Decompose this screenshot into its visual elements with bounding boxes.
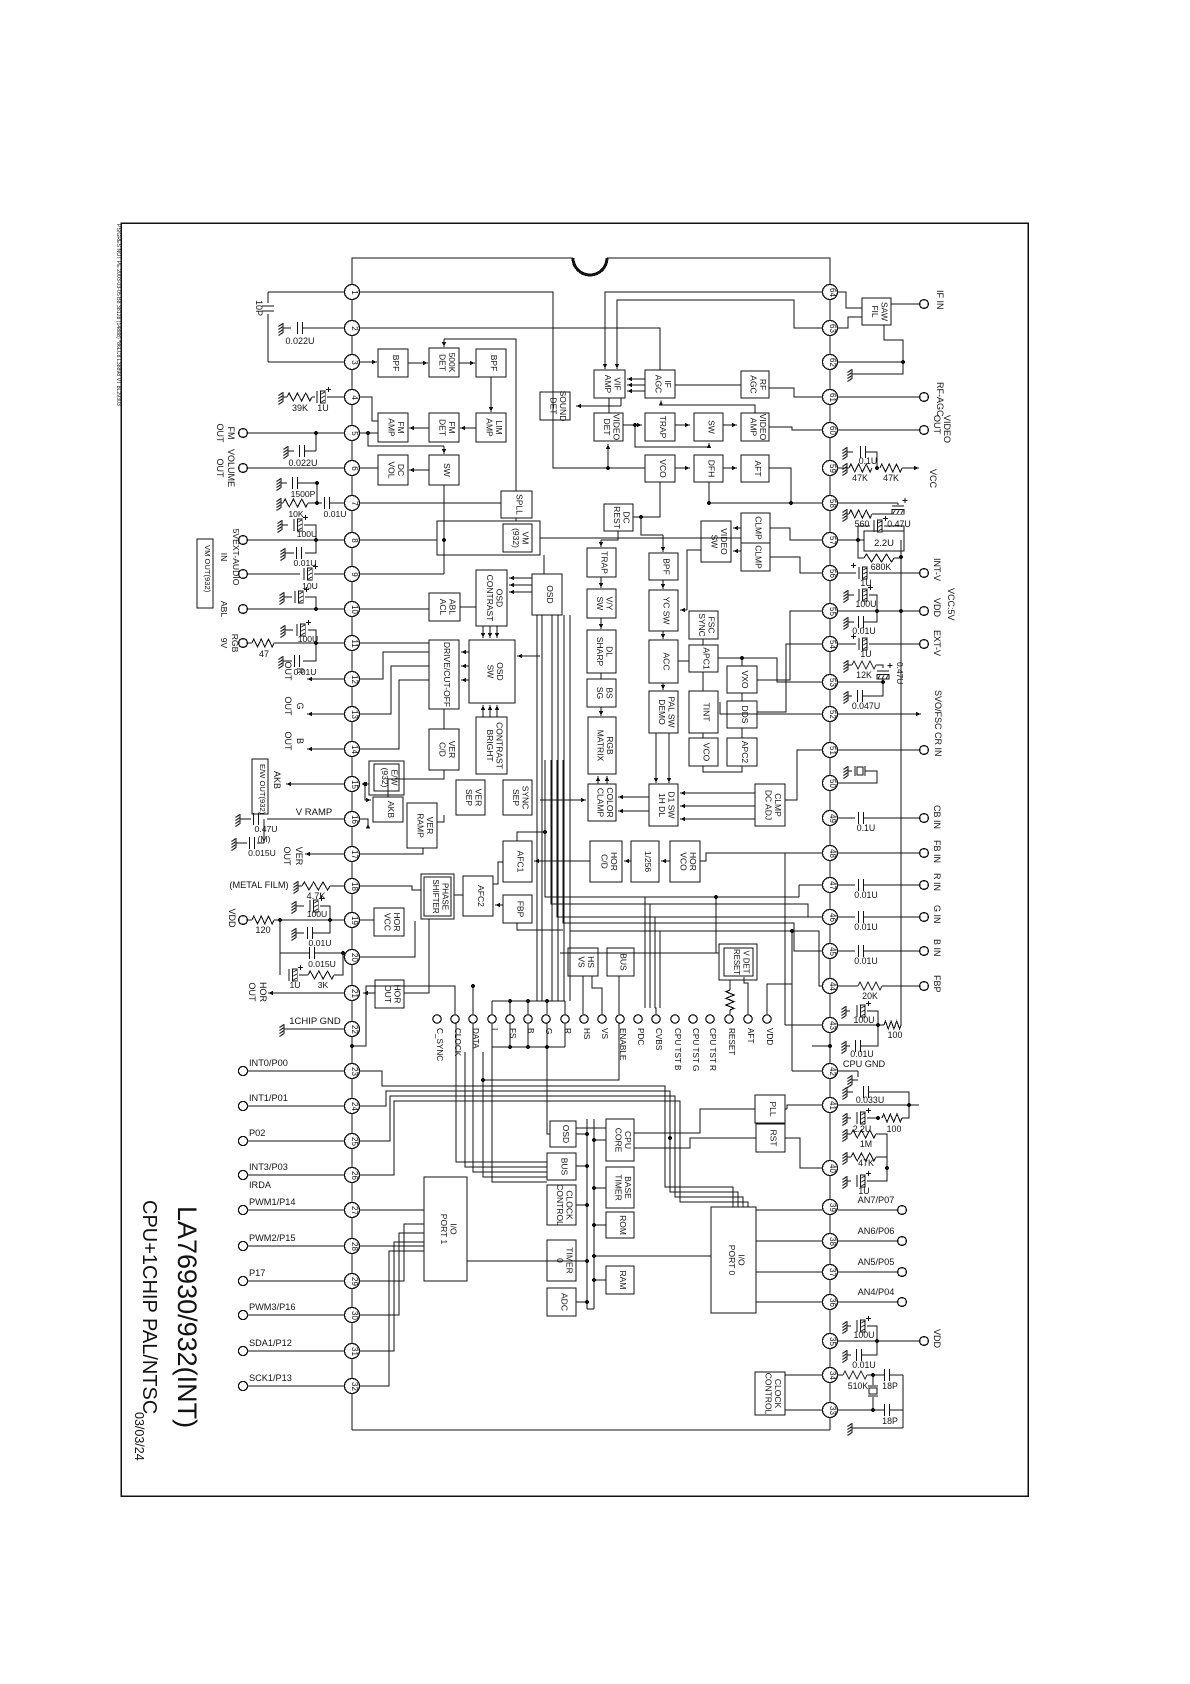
block BS SG bbox=[587, 679, 616, 707]
block BUS (cpu) bbox=[547, 1153, 576, 1180]
wire pin60 to VIDEO OUT connector bbox=[838, 429, 919, 431]
block CPU CORE bbox=[606, 1119, 634, 1161]
svg-text:PAL SW: PAL SW bbox=[666, 696, 676, 727]
block E/W(932) bbox=[374, 764, 399, 791]
connector P02 pin25 bbox=[238, 1136, 247, 1145]
capacitor 1U + resistor 3K at pin20 bbox=[279, 953, 281, 975]
svg-text:1U: 1U bbox=[860, 578, 871, 588]
svg-text:SW: SW bbox=[485, 665, 495, 679]
svg-text:VIDEO: VIDEO bbox=[719, 528, 729, 555]
wire pin38 to AN6/P06 bbox=[838, 1240, 897, 1242]
pin 41 bbox=[823, 1098, 838, 1113]
svg-text:VDD: VDD bbox=[227, 908, 237, 928]
svg-text:11: 11 bbox=[350, 639, 359, 648]
svg-text:25: 25 bbox=[350, 1137, 359, 1146]
capacitor 10P bbox=[262, 305, 274, 307]
junction below pin22 bbox=[350, 1044, 354, 1048]
svg-text:VIF: VIF bbox=[612, 377, 622, 390]
block AFC2 bbox=[463, 876, 493, 916]
svg-text:P17: P17 bbox=[249, 1268, 265, 1278]
wire TINT to VCO bbox=[702, 733, 704, 738]
svg-text:10K: 10K bbox=[288, 509, 304, 519]
pin 58 bbox=[823, 496, 838, 511]
connector INT1/P01 pin24 bbox=[238, 1101, 247, 1110]
block VIDEO DET bbox=[594, 413, 623, 441]
block AKB bbox=[373, 797, 403, 822]
capacitor 0.1U at pin59 bbox=[847, 451, 853, 453]
wire pin35 to VDD connector bbox=[838, 1340, 919, 1342]
wire AFT to pin58 node bbox=[769, 468, 791, 503]
svg-text:0.033U: 0.033U bbox=[856, 1095, 884, 1105]
wire OSD to OSD CONTRAST (3 arrows) bbox=[509, 577, 532, 579]
svg-text:FB IN: FB IN bbox=[932, 840, 942, 863]
connector P17 pin29 bbox=[238, 1276, 247, 1285]
svg-text:34: 34 bbox=[828, 1371, 837, 1380]
svg-text:G: G bbox=[295, 702, 305, 709]
svg-text:31: 31 bbox=[350, 1347, 359, 1356]
block HOR VCC bbox=[374, 908, 404, 936]
svg-text:DET: DET bbox=[437, 354, 447, 371]
svg-text:CONTRAST: CONTRAST bbox=[485, 575, 495, 622]
svg-text:100U: 100U bbox=[298, 634, 319, 644]
svg-text:DC: DC bbox=[396, 464, 406, 476]
saw filter SAW FIL bbox=[862, 298, 891, 325]
pin 45 bbox=[823, 944, 838, 959]
svg-text:60: 60 bbox=[828, 426, 837, 435]
svg-text:PORT 1: PORT 1 bbox=[439, 1214, 449, 1245]
connector RF-AGC bbox=[920, 393, 929, 402]
resistor 47 at pin11 bbox=[248, 642, 252, 644]
pins23-26 bus to I/O PORT 0 bbox=[360, 1071, 733, 1207]
capacitor 0.01U at pin11 bbox=[303, 643, 316, 661]
pin 25 bbox=[345, 1134, 360, 1149]
svg-text:1U: 1U bbox=[290, 980, 301, 990]
svg-text:LA76930/932(INT): LA76930/932(INT) bbox=[172, 1206, 202, 1428]
svg-text:OUT: OUT bbox=[383, 985, 393, 1003]
svg-text:0.01U: 0.01U bbox=[324, 509, 347, 519]
svg-text:VCO: VCO bbox=[678, 852, 688, 871]
wire FSC SYNC down to APC1 bbox=[702, 639, 704, 645]
svg-text:SEP: SEP bbox=[464, 789, 474, 806]
svg-text:EXT-V: EXT-V bbox=[932, 630, 942, 656]
svg-text:VS: VS bbox=[576, 956, 586, 968]
wire E/W to AKB link bbox=[387, 795, 389, 797]
svg-text:63: 63 bbox=[828, 324, 837, 333]
svg-text:35: 35 bbox=[828, 1337, 837, 1346]
svg-text:18: 18 bbox=[350, 882, 359, 891]
block DC REST bbox=[604, 504, 633, 531]
svg-text:46: 46 bbox=[828, 913, 837, 922]
svg-text:BPF: BPF bbox=[391, 355, 401, 372]
svg-text:LIM: LIM bbox=[494, 420, 504, 434]
svg-text:3K: 3K bbox=[318, 980, 329, 990]
resistor 100 at pin41 bbox=[882, 1114, 902, 1122]
connector FM OUT bbox=[239, 429, 248, 438]
bus line pin46 direct bbox=[557, 760, 822, 917]
svg-text:VIDEO: VIDEO bbox=[611, 414, 621, 441]
svg-text:DEMO: DEMO bbox=[657, 699, 667, 725]
wire DL SHARP to BS SG bbox=[600, 673, 602, 679]
wire APC1 to TINT bbox=[702, 672, 704, 691]
svg-text:DL: DL bbox=[604, 646, 614, 657]
resistor 10K at pin7 bbox=[281, 502, 283, 504]
block LIM AMP bbox=[476, 413, 506, 442]
wire 1/256 to HOR C/D bbox=[624, 860, 631, 862]
svg-text:SYNC: SYNC bbox=[697, 613, 707, 637]
block IF AGC bbox=[645, 370, 675, 398]
wire DFH to AFT bbox=[723, 467, 737, 469]
wire HS circle to HS VS block bbox=[582, 976, 584, 1014]
pin 50 bbox=[823, 776, 838, 791]
pin 54 bbox=[823, 637, 838, 652]
VDD rail right side bbox=[900, 540, 902, 1025]
wire OSD CONTRAST to OSD SW (3 arrows down) bbox=[482, 626, 484, 638]
wire I/O PORT 0 to pin37 bbox=[756, 1271, 822, 1273]
wire pin18 internal to PHASE SHIFTER bbox=[360, 886, 421, 890]
svg-text:VER: VER bbox=[425, 817, 435, 834]
svg-text:VDD: VDD bbox=[932, 598, 942, 618]
svg-text:AKB: AKB bbox=[272, 771, 282, 789]
block FM DET bbox=[429, 413, 459, 442]
wire RF AGC to pin61 / RF-AGC out bbox=[769, 388, 822, 397]
svg-text:RESET: RESET bbox=[727, 1028, 736, 1055]
svg-text:VS: VS bbox=[600, 1028, 609, 1039]
svg-text:BS: BS bbox=[604, 687, 614, 699]
wire TRAP to SW bbox=[675, 424, 690, 426]
block D1 SW 1H DL bbox=[649, 784, 678, 826]
wire pin12 R OUT route bbox=[360, 652, 429, 679]
block FM AMP bbox=[378, 413, 408, 442]
capacitor 0.01U at pin7 bbox=[316, 483, 318, 503]
arrow R OUT bbox=[307, 678, 344, 680]
wire pin55 to VXO supply bbox=[757, 611, 822, 680]
arrow AKB out at pin15 bbox=[286, 783, 344, 785]
svg-text:OSD: OSD bbox=[561, 1125, 571, 1143]
block VIDEO SW bbox=[701, 521, 731, 562]
connector PWM3/P16 pin30 bbox=[238, 1310, 247, 1319]
svg-text:C/D: C/D bbox=[599, 854, 609, 869]
port circle VS bbox=[598, 1015, 606, 1023]
svg-text:VER: VER bbox=[294, 847, 304, 866]
arrow SVO/FSC out pin52 bbox=[838, 713, 912, 715]
bus verticals to CPU BUS block bbox=[456, 1023, 547, 1162]
capacitor 1U series at pin56 bbox=[838, 572, 856, 574]
wire V DET RESET left rail bbox=[560, 952, 719, 954]
port circle AFT bbox=[744, 1015, 752, 1023]
wire G line to OSD(cpu) bbox=[547, 1047, 550, 1134]
ground at pin22 bbox=[283, 1024, 285, 1034]
capacitor 0.01U at pin55 bbox=[848, 621, 854, 623]
svg-text:B: B bbox=[526, 1028, 535, 1034]
capacitor 0.01U at pin47 bbox=[838, 884, 855, 886]
svg-text:54: 54 bbox=[828, 640, 837, 649]
block DL SHARP bbox=[587, 630, 616, 673]
wire CONTRAST BRIGHT to OSD SW (3 arrows up) bbox=[482, 705, 484, 717]
wire pin39 to AN7/P07 bbox=[838, 1209, 897, 1211]
svg-text:100: 100 bbox=[888, 1030, 903, 1040]
svg-text:AMP: AMP bbox=[386, 418, 396, 437]
wire pin52 to FSC out route bbox=[720, 702, 822, 714]
wire SPLL bottom into VM bbox=[515, 518, 517, 521]
wire HOR VCO to 1/256 bbox=[661, 860, 670, 862]
pin 24 bbox=[345, 1099, 360, 1114]
svg-text:61: 61 bbox=[828, 393, 837, 402]
wire pin63 to VIF AMP top bbox=[617, 300, 822, 360]
wire BPF to 500K DET bbox=[408, 362, 428, 364]
page frame bbox=[121, 223, 1028, 1496]
svg-text:24: 24 bbox=[350, 1102, 359, 1111]
svg-text:HOR: HOR bbox=[392, 913, 402, 932]
svg-text:YC SW: YC SW bbox=[662, 597, 672, 625]
pin 1 bbox=[345, 285, 360, 300]
block ROM bbox=[606, 1212, 634, 1238]
svg-text:42: 42 bbox=[828, 1067, 837, 1076]
resistors 47K 47K at pin59 VCC bbox=[847, 467, 849, 469]
svg-text:1: 1 bbox=[350, 290, 359, 295]
wire pin51 to CR IN connector bbox=[838, 749, 919, 751]
block SW (video) bbox=[694, 413, 723, 441]
capacitor 0.015U at pin20 bbox=[309, 947, 311, 959]
svg-text:BASE: BASE bbox=[623, 1176, 633, 1199]
label box VM OUT(932) bbox=[197, 539, 213, 608]
svg-text:3: 3 bbox=[350, 360, 359, 365]
wire V/Y SW to DL SHARP bbox=[600, 618, 602, 629]
wire pin29 to I/O PORT 1 bbox=[360, 1224, 424, 1281]
connector INT0/P00 pin23 bbox=[238, 1066, 247, 1075]
svg-text:REST: REST bbox=[612, 506, 622, 529]
wire YC SW to ACC bbox=[662, 631, 664, 639]
svg-text:BRIGHT: BRIGHT bbox=[485, 729, 495, 761]
svg-text:0.47U: 0.47U bbox=[887, 519, 910, 529]
block HOR OUT bbox=[375, 980, 404, 1008]
pin 32 bbox=[345, 1379, 360, 1394]
svg-text:RF-AGC: RF-AGC bbox=[935, 382, 945, 417]
svg-text:SHARP: SHARP bbox=[595, 637, 605, 667]
svg-text:36: 36 bbox=[828, 1298, 837, 1307]
wire pin61 to RF-AGC connector bbox=[838, 396, 919, 398]
block VCO bbox=[645, 455, 675, 482]
port circle HS bbox=[580, 1015, 588, 1023]
svg-text:20: 20 bbox=[350, 953, 359, 962]
svg-text:VCO: VCO bbox=[702, 743, 712, 762]
svg-text:ENABLE: ENABLE bbox=[618, 1028, 627, 1061]
svg-text:AKB: AKB bbox=[386, 801, 396, 818]
svg-text:CONTROL: CONTROL bbox=[555, 1184, 565, 1226]
svg-text:03/03/24: 03/03/24 bbox=[132, 1412, 146, 1461]
resistor 680K at pin57 bbox=[858, 540, 864, 558]
wire CPU CORE right to PLL bbox=[634, 1109, 755, 1133]
wire pin16 V RAMP bbox=[267, 818, 344, 820]
port circle CPU TST G bbox=[689, 1015, 697, 1023]
bracket rails around RGB circles bbox=[492, 1000, 565, 1002]
block VCO (color) bbox=[689, 738, 718, 766]
svg-text:16: 16 bbox=[350, 815, 359, 824]
wire cpu rail to I/O PORT 0 bbox=[594, 1255, 711, 1257]
svg-text:0.01U: 0.01U bbox=[294, 667, 317, 677]
wire VM box to OSD top bbox=[543, 555, 545, 574]
block FSC SYNC bbox=[689, 611, 718, 639]
IC LA76930 body outline bbox=[352, 258, 573, 292]
svg-text:C/D: C/D bbox=[437, 742, 447, 757]
svg-text:55: 55 bbox=[828, 607, 837, 616]
wire HOR OUT block to phase shifter column bbox=[404, 919, 429, 993]
wire VIDEO SW to YC SW right bbox=[687, 550, 701, 610]
wire pin58 row internal bbox=[709, 502, 822, 504]
svg-text:32: 32 bbox=[350, 1382, 359, 1391]
svg-text:47K: 47K bbox=[852, 473, 868, 483]
svg-text:R IN: R IN bbox=[932, 873, 942, 891]
svg-text:0.022U: 0.022U bbox=[285, 336, 314, 346]
block HS VS bbox=[568, 948, 598, 976]
port circle B bbox=[524, 1015, 532, 1023]
svg-text:SOUND: SOUND bbox=[558, 391, 568, 422]
svg-text:APC2: APC2 bbox=[740, 741, 750, 763]
block PLL bbox=[755, 1095, 785, 1123]
block VXO bbox=[727, 666, 757, 693]
connector VDD bbox=[920, 1337, 929, 1346]
connector G IN bbox=[920, 913, 929, 922]
block CONTRAST BRIGHT bbox=[476, 717, 507, 774]
svg-text:CPU TST G: CPU TST G bbox=[691, 1028, 700, 1071]
block YC SW bbox=[649, 590, 678, 631]
block OSD SW bbox=[469, 640, 515, 703]
svg-text:ADC: ADC bbox=[560, 1293, 570, 1311]
wire CLMP DC ADJ to pin51 route bbox=[785, 750, 822, 800]
resistor 47K at pin40 bbox=[847, 1156, 851, 1158]
block VER RAMP bbox=[407, 803, 437, 848]
connector CR IN bbox=[920, 746, 929, 755]
svg-text:53: 53 bbox=[828, 678, 837, 687]
svg-text:43: 43 bbox=[828, 1021, 837, 1030]
svg-text:SYNC: SYNC bbox=[520, 786, 530, 810]
wire IF AGC to RF AGC bbox=[675, 384, 741, 386]
svg-text:RF: RF bbox=[758, 379, 768, 390]
port circle CVBS bbox=[652, 1015, 660, 1023]
wire OSD(cpu) to CPU CORE bbox=[576, 1127, 606, 1129]
resistor 20K at pin44 bbox=[838, 985, 858, 987]
wire SYNC SEP to COLOR CLAMP bbox=[540, 799, 586, 801]
svg-text:FIL: FIL bbox=[870, 305, 880, 318]
pin 20 bbox=[345, 950, 360, 965]
wire ACC to TINT bbox=[678, 660, 689, 662]
svg-text:B IN: B IN bbox=[932, 939, 942, 957]
svg-text:28: 28 bbox=[350, 1242, 359, 1251]
block BPF (sound IF) bbox=[378, 349, 408, 377]
capacitor 10U series at pin9 bbox=[303, 568, 305, 580]
wire into OSD SW right bbox=[517, 655, 540, 657]
svg-text:50: 50 bbox=[828, 779, 837, 788]
svg-text:CLOCK: CLOCK bbox=[773, 1379, 783, 1409]
svg-text:SDA1/P12: SDA1/P12 bbox=[249, 1338, 292, 1348]
svg-text:10: 10 bbox=[350, 605, 359, 614]
svg-text:I: I bbox=[490, 1028, 499, 1030]
svg-text:2.2U: 2.2U bbox=[874, 538, 894, 549]
capacitor 1U series at pin54 bbox=[838, 643, 856, 645]
wire APC1 node up to pin53 route bbox=[742, 658, 822, 682]
svg-text:TRAP: TRAP bbox=[658, 416, 668, 439]
wire DDS to APC2 bbox=[741, 728, 743, 738]
wire AFC1 top node bbox=[517, 832, 545, 841]
svg-text:ABL: ABL bbox=[447, 599, 457, 615]
pin 57 bbox=[823, 533, 838, 548]
svg-text:26: 26 bbox=[350, 1171, 359, 1180]
svg-text:SW: SW bbox=[707, 420, 717, 434]
svg-text:IRDA: IRDA bbox=[249, 1180, 272, 1190]
wire CLMP DC ADJ to D1 SW (arrows) bbox=[680, 792, 755, 794]
block 1/256 bbox=[631, 841, 659, 882]
wire pin11 to DRIVE/CUT-OFF bbox=[360, 642, 429, 644]
svg-text:SAW: SAW bbox=[879, 302, 889, 321]
wire V DET RESET to RESET circle via resistor bbox=[729, 980, 731, 990]
block APC1 bbox=[689, 645, 718, 672]
wire pin15 node to AKB block bbox=[363, 782, 367, 786]
svg-text:44: 44 bbox=[828, 982, 837, 991]
svg-text:BUS: BUS bbox=[619, 953, 629, 971]
pin 19 bbox=[345, 913, 360, 928]
svg-text:4: 4 bbox=[350, 395, 359, 400]
wire pin7 to SPLL bbox=[360, 502, 501, 504]
capacitor 0.01U at pin8 bbox=[305, 540, 316, 553]
pin 48 bbox=[823, 846, 838, 861]
block DDS bbox=[727, 701, 757, 728]
svg-text:AFC1: AFC1 bbox=[516, 851, 526, 873]
pin 26 bbox=[345, 1168, 360, 1183]
block PHASE SHIFTER (double frame) bbox=[421, 874, 454, 919]
bus R line (pin47) bbox=[545, 760, 799, 897]
svg-text:DATA: DATA bbox=[471, 1028, 480, 1049]
svg-text:PS/GRES NOT PE 2003-03-05 B8 3: PS/GRES NOT PE 2003-03-05 B8 38128 (1488… bbox=[115, 224, 121, 406]
wire pin19 to HOR VCC bbox=[360, 919, 374, 921]
pin 11 bbox=[345, 636, 360, 651]
wire COLOR CLAMP to RGB MATRIX (2 arrows) bbox=[597, 776, 599, 784]
port circle I bbox=[488, 1015, 496, 1023]
block AFC1 bbox=[503, 841, 532, 882]
svg-text:9V: 9V bbox=[219, 638, 229, 649]
pin 40 bbox=[823, 1161, 838, 1176]
block DC VOL bbox=[378, 455, 408, 485]
svg-text:HOR: HOR bbox=[688, 852, 698, 871]
svg-text:CPU+1CHIP PAL/NTSC: CPU+1CHIP PAL/NTSC bbox=[138, 1200, 160, 1414]
svg-text:VM: VM bbox=[520, 532, 530, 545]
svg-text:C_SYNC: C_SYNC bbox=[435, 1028, 444, 1061]
svg-text:OUT: OUT bbox=[283, 732, 293, 752]
connector IF IN bbox=[920, 300, 929, 309]
wire pin36 to AN4/P04 bbox=[838, 1301, 897, 1303]
svg-text:FBP: FBP bbox=[516, 901, 526, 918]
resistor 510K at pin34 bbox=[838, 1374, 843, 1376]
wire RST left rail crossing bbox=[668, 1136, 672, 1140]
svg-text:(932): (932) bbox=[511, 528, 521, 548]
connector EXT-V bbox=[920, 640, 929, 649]
pin 63 bbox=[823, 321, 838, 336]
svg-text:SW: SW bbox=[709, 535, 719, 549]
wire pin9 to VM box bottom bbox=[360, 573, 444, 575]
svg-text:TIMER: TIMER bbox=[613, 1174, 623, 1200]
pin 33 bbox=[823, 1403, 838, 1418]
svg-text:RGB: RGB bbox=[230, 634, 240, 653]
svg-text:12K: 12K bbox=[856, 670, 872, 680]
capacitor 100U at pin8 bbox=[282, 524, 288, 526]
pin 23 bbox=[345, 1064, 360, 1079]
wire PHASE SHIFTER to AFC2 bbox=[454, 894, 463, 896]
svg-text:CPU TST B: CPU TST B bbox=[673, 1028, 682, 1071]
block BUS bbox=[607, 948, 634, 976]
svg-text:RST: RST bbox=[769, 1130, 779, 1147]
svg-text:SW: SW bbox=[595, 597, 605, 611]
svg-text:0.047U: 0.047U bbox=[852, 701, 880, 711]
svg-text:0.015U: 0.015U bbox=[308, 959, 336, 969]
pin 43 bbox=[823, 1018, 838, 1033]
